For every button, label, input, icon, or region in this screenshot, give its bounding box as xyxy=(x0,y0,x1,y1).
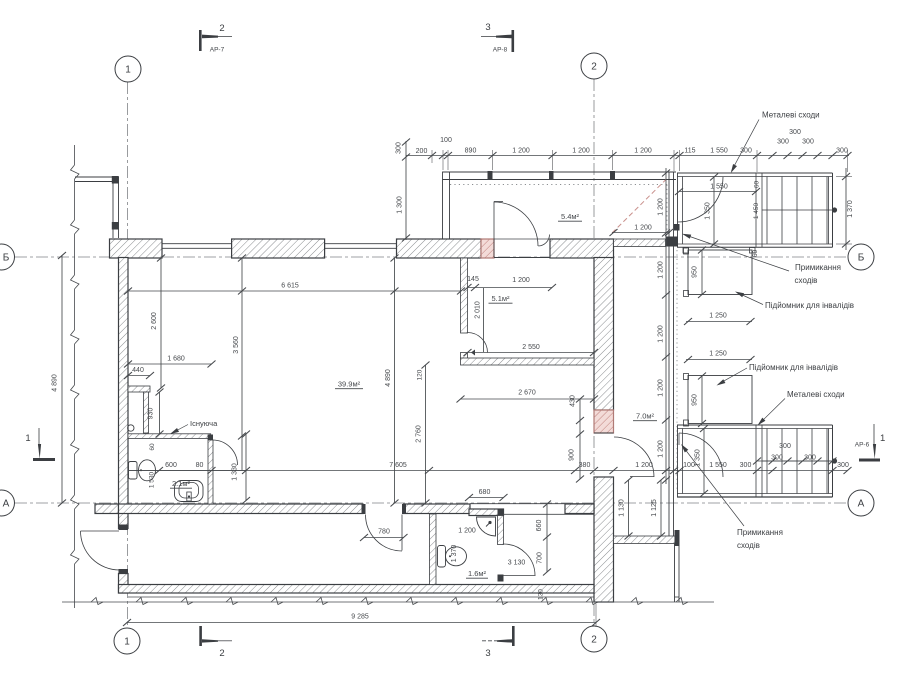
svg-text:1 680: 1 680 xyxy=(167,356,185,363)
axis-A wall left protrusion xyxy=(95,504,119,514)
svg-text:300: 300 xyxy=(777,139,789,146)
dim 2 670 xyxy=(457,390,599,403)
svg-text:900: 900 xyxy=(569,449,576,461)
right wall door jambs (corridor door opening) xyxy=(594,433,614,477)
wheelchair lift shaft 2 xyxy=(684,374,753,427)
closet partition horizontal (top-left) xyxy=(128,386,150,392)
porch demolition dashed diagonal (pink) xyxy=(612,180,666,234)
lower east wall below corridor xyxy=(675,530,680,602)
svg-text:Підйомник для інвалідів: Підйомник для інвалідів xyxy=(749,363,838,372)
svg-text:6 615: 6 615 xyxy=(281,283,299,290)
porch interior dotted line xyxy=(450,185,667,234)
dim 2 600 vertical xyxy=(151,255,165,392)
area label 5.4 m2 xyxy=(558,212,582,221)
svg-text:2 670: 2 670 xyxy=(518,390,536,397)
svg-text:200: 200 xyxy=(416,148,428,155)
svg-text:АР-8: АР-8 xyxy=(493,47,508,54)
area label 5.1 m2 xyxy=(489,294,513,303)
axis-A wall 680 segment xyxy=(469,509,504,516)
svg-text:950: 950 xyxy=(692,394,699,406)
dim 3 560 vertical xyxy=(233,255,246,471)
svg-text:7 605: 7 605 xyxy=(389,462,407,469)
svg-text:сходів: сходів xyxy=(737,541,760,550)
label Prymykannya skhodiv (upper) with leader xyxy=(681,232,841,285)
svg-text:5.4м²: 5.4м² xyxy=(561,212,580,221)
metal stair upper: landing and treads xyxy=(677,173,833,247)
svg-text:1 130: 1 130 xyxy=(619,499,626,517)
wheelchair lift shaft 1 xyxy=(684,248,753,297)
svg-text:1 350: 1 350 xyxy=(705,202,712,220)
label Metalevi skhody (lower) with leader xyxy=(756,390,845,427)
section marker 3 (bottom) xyxy=(482,626,515,659)
svg-text:300: 300 xyxy=(396,142,403,154)
section marker 2 / AP-7 (top) xyxy=(199,23,232,54)
room 5.1 dim 2 010 vertical xyxy=(475,288,484,352)
upper stair support posts xyxy=(683,248,755,254)
svg-text:1 250: 1 250 xyxy=(709,351,727,358)
existing partition (Isnuyucha) horizontal xyxy=(128,434,211,439)
svg-text:1 530: 1 530 xyxy=(149,471,156,488)
porch north wall xyxy=(443,171,677,180)
svg-text:3: 3 xyxy=(485,22,490,33)
black post at porch/landing corner xyxy=(674,224,680,231)
right vertical dim 1 370 (upper stair) xyxy=(836,168,854,250)
lower stair direction line with end dot xyxy=(762,458,837,463)
dim 930 vertical xyxy=(148,389,164,438)
WC 1.6 door leaf and arc xyxy=(504,544,536,576)
dim 9 285 xyxy=(123,604,600,627)
ground line with break marks xyxy=(62,598,714,605)
svg-text:60: 60 xyxy=(752,250,759,258)
dim 700 vertical xyxy=(537,537,552,576)
toilet in WC 2.1 (bottom) xyxy=(175,481,204,502)
label Metalevi skhody (upper) with leader xyxy=(729,111,820,175)
WC 1.6 partition left vertical xyxy=(430,514,437,585)
svg-text:1 125: 1 125 xyxy=(651,499,658,517)
corridor south wall xyxy=(614,536,676,544)
svg-text:1 370: 1 370 xyxy=(847,200,854,218)
dims 430 / 900 vertical (near right wall) xyxy=(569,395,585,482)
svg-text:300: 300 xyxy=(779,443,791,450)
lower stair tread dims 300 xyxy=(753,443,837,465)
dim 1 370 (WC toilet) xyxy=(451,545,458,563)
svg-text:1 200: 1 200 xyxy=(634,225,652,232)
existing ramp rails (top-left) xyxy=(75,176,119,238)
svg-text:430: 430 xyxy=(570,395,577,407)
svg-text:А: А xyxy=(3,499,10,510)
svg-text:2: 2 xyxy=(591,62,597,73)
svg-text:300: 300 xyxy=(771,455,783,462)
svg-text:Металеві сходи: Металеві сходи xyxy=(787,390,845,399)
svg-text:5.1м²: 5.1м² xyxy=(491,294,510,303)
metal stair lower: landing and treads xyxy=(677,425,833,497)
room 5.1 partition horizontal xyxy=(461,358,595,365)
svg-text:4 890: 4 890 xyxy=(385,369,392,387)
lift dim 1 250 (lower) xyxy=(684,351,755,364)
svg-text:3 130: 3 130 xyxy=(508,560,526,567)
svg-text:1 550: 1 550 xyxy=(710,148,728,155)
svg-text:1 200: 1 200 xyxy=(458,528,476,535)
dim 2 760 vertical xyxy=(416,362,430,507)
dim 440 xyxy=(124,367,154,379)
svg-text:2: 2 xyxy=(591,635,597,646)
lift 1 dim 950 vertical xyxy=(692,247,707,299)
corridor vertical dim chain 1 200 x4 xyxy=(658,168,671,484)
axis-A wall face line across opening xyxy=(470,504,594,515)
right wall pink (new opening) segment xyxy=(594,410,614,433)
dim 3 130 xyxy=(508,560,526,567)
top exterior wall pier 2 xyxy=(232,239,325,258)
door 780 in axis-A wall (leaf+arc) xyxy=(366,515,403,552)
porch east wall / corridor east wall xyxy=(669,172,674,536)
svg-text:1 200: 1 200 xyxy=(658,379,665,397)
porch dims 145 / 1 200 xyxy=(464,276,557,291)
lower landing door leaf and arc xyxy=(679,433,723,477)
svg-text:1 370: 1 370 xyxy=(451,545,458,563)
svg-text:1 300: 1 300 xyxy=(397,196,404,214)
bottom wall plinth line xyxy=(128,596,594,598)
svg-text:9 285: 9 285 xyxy=(351,614,369,621)
section marker 1 / AP-6 (right) xyxy=(855,424,886,462)
upper landing door arc xyxy=(678,177,723,222)
svg-text:4 890: 4 890 xyxy=(52,374,59,392)
svg-text:120: 120 xyxy=(417,369,424,380)
window W1 (top wall) xyxy=(162,243,232,250)
svg-text:Примикання: Примикання xyxy=(795,263,841,272)
svg-text:1 550: 1 550 xyxy=(709,462,727,469)
window W2 (top wall) xyxy=(325,243,397,250)
svg-text:А: А xyxy=(858,499,865,510)
svg-text:2: 2 xyxy=(219,23,224,34)
svg-text:1.6м²: 1.6м² xyxy=(468,569,487,578)
svg-text:3: 3 xyxy=(485,648,490,659)
svg-text:300: 300 xyxy=(804,455,816,462)
section marker 2 (bottom) xyxy=(199,626,232,659)
upper landing dim 1 550 xyxy=(675,184,760,196)
grid axis B (horizontal dash-dot) with bubbles xyxy=(0,244,874,270)
dim 660 vertical xyxy=(536,501,551,541)
axis-A wall segment 3 (at right wall) xyxy=(565,504,594,514)
svg-text:1 200: 1 200 xyxy=(572,148,590,155)
svg-text:АР-7: АР-7 xyxy=(210,47,225,54)
svg-text:680: 680 xyxy=(479,489,491,496)
dim 1 125 vertical xyxy=(651,477,665,540)
svg-text:1: 1 xyxy=(880,433,885,444)
upper landing dim 1 350 vertical xyxy=(705,174,719,248)
svg-text:300: 300 xyxy=(837,462,849,469)
svg-text:2 760: 2 760 xyxy=(416,425,423,443)
lower landing dim 1 350 vertical xyxy=(695,425,709,497)
corridor horizontal dim 1 200 xyxy=(610,225,674,237)
svg-text:60: 60 xyxy=(149,443,156,451)
svg-text:1 200: 1 200 xyxy=(634,148,652,155)
left wall exterior door (leaf+arc) xyxy=(81,531,120,570)
svg-text:1 200: 1 200 xyxy=(512,277,530,284)
svg-text:Б: Б xyxy=(858,253,865,264)
svg-text:115: 115 xyxy=(684,148,695,155)
dim 1 130 vertical xyxy=(619,477,633,540)
corridor north wall xyxy=(614,239,666,247)
vertical dim 300 + 1 300 (left of porch) xyxy=(396,139,411,242)
svg-text:7.0м²: 7.0м² xyxy=(636,412,655,421)
svg-text:2 010: 2 010 xyxy=(475,301,482,319)
svg-text:1 330: 1 330 xyxy=(232,463,239,481)
existing partition end cap xyxy=(208,435,213,441)
room 5.1 partition vertical below door xyxy=(461,353,468,359)
svg-text:780: 780 xyxy=(378,529,390,536)
svg-text:950: 950 xyxy=(692,266,699,278)
left exterior wall xyxy=(119,258,129,529)
label Isnuyucha with leader xyxy=(169,419,218,436)
corner sink in WC 1.6 xyxy=(477,517,496,536)
top exterior wall pier 3 xyxy=(397,239,482,258)
dim 1 330 vertical xyxy=(232,431,251,505)
svg-text:130: 130 xyxy=(538,589,545,600)
break line of existing building (left, with zigzags) xyxy=(71,145,80,608)
svg-text:1 450: 1 450 xyxy=(753,202,760,219)
svg-text:100: 100 xyxy=(683,462,695,469)
WC 1.6 partition right vertical xyxy=(498,516,504,545)
svg-text:2.1м²: 2.1м² xyxy=(172,479,191,488)
top exterior wall pier 4 xyxy=(550,239,614,258)
svg-text:1 250: 1 250 xyxy=(709,313,727,320)
grid axis A (horizontal dash-dot) with bubbles xyxy=(0,490,874,516)
right exterior wall upper xyxy=(594,258,614,411)
svg-text:2: 2 xyxy=(219,648,224,659)
dim 1 530 vertical xyxy=(149,471,156,488)
axis-A wall segment 2 (right of 780 door) xyxy=(404,504,471,514)
svg-text:2 550: 2 550 xyxy=(522,344,540,351)
door threshold in top wall (porch door opening) xyxy=(494,239,550,258)
svg-text:1 200: 1 200 xyxy=(635,462,653,469)
svg-text:39.9м²: 39.9м² xyxy=(338,380,361,389)
svg-text:1 200: 1 200 xyxy=(658,198,665,216)
main room dim 6 615 xyxy=(124,283,465,295)
corridor north wall corner cap xyxy=(666,237,679,247)
label Prymykannya skhodiv (lower) with leader xyxy=(679,443,783,550)
axis-A wall cap at 680 segment xyxy=(498,510,504,517)
svg-text:145: 145 xyxy=(467,276,479,283)
dim 1 680 xyxy=(124,356,216,368)
area label 2.1 m2 xyxy=(170,479,192,488)
WC 2.1 partition vertical xyxy=(208,440,213,504)
dim 680 xyxy=(465,489,508,501)
svg-text:100: 100 xyxy=(440,137,452,144)
porch west wall xyxy=(443,172,450,239)
dim 120 vertical xyxy=(417,369,424,380)
svg-text:1: 1 xyxy=(25,433,30,444)
svg-text:2 600: 2 600 xyxy=(151,312,158,330)
room 5.1 door arc xyxy=(468,333,488,356)
corridor door arc (right wall opening) xyxy=(614,437,654,477)
dims 600 / 80 row xyxy=(128,462,250,474)
svg-text:440: 440 xyxy=(132,367,144,374)
lift dim 1 250 (upper) xyxy=(684,313,755,326)
area label 1.6 m2 xyxy=(466,569,488,578)
svg-text:Існуюча: Існуюча xyxy=(190,419,218,428)
svg-text:890: 890 xyxy=(465,148,477,155)
svg-text:1: 1 xyxy=(125,65,131,76)
svg-text:300: 300 xyxy=(836,148,848,155)
svg-text:380: 380 xyxy=(579,462,591,469)
dim 130 vertical xyxy=(538,589,545,600)
upper stair stringer dims 60 / 1 450 / 60 xyxy=(752,181,761,258)
dim 4 890 vertical (mid) xyxy=(385,255,399,507)
top dimension chain 200/100/890/1200s/115/1550/300s xyxy=(406,129,852,172)
toilet in WC 2.1 (left, against wall) xyxy=(129,460,156,481)
svg-text:1: 1 xyxy=(124,637,130,648)
svg-text:600: 600 xyxy=(165,462,177,469)
svg-text:сходів: сходів xyxy=(795,276,818,285)
svg-text:930: 930 xyxy=(148,408,155,420)
svg-text:300: 300 xyxy=(789,129,801,136)
top wall pink (new) segment xyxy=(481,239,494,258)
left exterior wall below door xyxy=(119,574,129,594)
dim 4 890 vertical (far left) xyxy=(52,252,67,507)
svg-text:1 200: 1 200 xyxy=(512,148,530,155)
svg-text:Металеві сходи: Металеві сходи xyxy=(762,111,820,120)
room 5.1 dim 2 550 xyxy=(464,344,599,356)
svg-text:300: 300 xyxy=(802,139,814,146)
closet door knob circle xyxy=(128,425,134,431)
bottom exterior wall xyxy=(119,585,595,594)
svg-text:1 200: 1 200 xyxy=(658,440,665,458)
svg-text:300: 300 xyxy=(740,462,752,469)
svg-text:700: 700 xyxy=(537,552,544,564)
interior dim row 7 605 / 380 / 1 200 / 100 / 1 550 / 300 xyxy=(128,462,852,474)
svg-text:3 560: 3 560 xyxy=(233,336,240,354)
svg-text:АР-6: АР-6 xyxy=(855,442,870,449)
door 780 jamb caps xyxy=(362,504,407,514)
svg-text:1 200: 1 200 xyxy=(658,261,665,279)
WC 1.6 door stop block xyxy=(498,575,504,582)
svg-text:Примикання: Примикання xyxy=(737,528,783,537)
svg-text:80: 80 xyxy=(196,462,204,469)
dim 60 (closet) xyxy=(149,443,156,451)
section marker 1 (left) xyxy=(25,428,55,461)
dim 780 xyxy=(360,529,408,542)
svg-text:Б: Б xyxy=(3,253,10,264)
closet partition vertical xyxy=(144,392,149,433)
corridor east wall dotted overhang line xyxy=(676,250,678,490)
svg-text:1 550: 1 550 xyxy=(710,184,728,191)
label Pidyomnyk dlya invalidiv (lower) with leader xyxy=(715,363,838,387)
room 5.1 partition vertical xyxy=(461,258,468,333)
top exterior wall pier 1 xyxy=(110,239,163,258)
svg-text:Підйомник для інвалідів: Підйомник для інвалідів xyxy=(765,301,854,310)
left wall door jamb caps (lower strip door) xyxy=(119,525,129,575)
axis-A wall segment 1 xyxy=(119,504,364,514)
upper stair direction line with end dot xyxy=(762,207,837,212)
label Pidyomnyk dlya invalidiv (upper) with leader xyxy=(734,290,854,310)
grid axis 1 (vertical dash-dot) with bubbles xyxy=(114,56,141,654)
grid axis 2 (vertical dash-dot) with bubbles xyxy=(581,53,607,652)
area label 39.9 m2 xyxy=(335,380,363,389)
svg-text:60: 60 xyxy=(754,181,761,189)
right exterior wall lower xyxy=(594,477,614,602)
svg-text:1 200: 1 200 xyxy=(658,325,665,343)
toilet in WC 1.6 xyxy=(438,546,467,568)
dim 1 200 (WC) xyxy=(458,528,476,535)
svg-text:1 350: 1 350 xyxy=(695,449,702,467)
WC 2.1 door arc xyxy=(213,440,238,465)
porch door leaf, swing arc and curl xyxy=(494,202,550,247)
lift 2 dim 950 vertical xyxy=(692,373,707,428)
area label 7.0 m2 xyxy=(633,412,657,421)
svg-text:660: 660 xyxy=(536,520,543,532)
section marker 3 / AP-8 (top) xyxy=(481,22,514,54)
